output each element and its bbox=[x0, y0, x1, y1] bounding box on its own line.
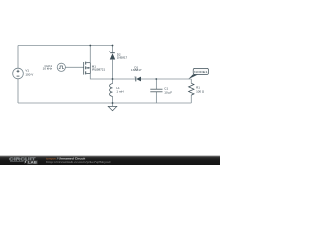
svg-text:1N5817: 1N5817 bbox=[131, 68, 142, 72]
svg-text:IRLB8721: IRLB8721 bbox=[92, 67, 106, 71]
svg-text:NODE1: NODE1 bbox=[194, 70, 208, 74]
svg-text:100 V: 100 V bbox=[25, 72, 33, 76]
svg-text:100 Ω: 100 Ω bbox=[196, 89, 205, 93]
svg-text:1 mH: 1 mH bbox=[116, 90, 123, 94]
svg-text:LAB: LAB bbox=[28, 160, 37, 165]
svg-text:*: * bbox=[134, 75, 135, 79]
svg-text:*: * bbox=[109, 50, 110, 54]
svg-text:10 µF: 10 µF bbox=[164, 91, 172, 95]
svg-text:1N5817: 1N5817 bbox=[117, 55, 128, 59]
svg-text:http://circuitlab.com/c/p3e7qf: http://circuitlab.com/c/p3e7qf6kyxd bbox=[46, 160, 111, 164]
svg-text:10 kHz: 10 kHz bbox=[43, 67, 53, 71]
